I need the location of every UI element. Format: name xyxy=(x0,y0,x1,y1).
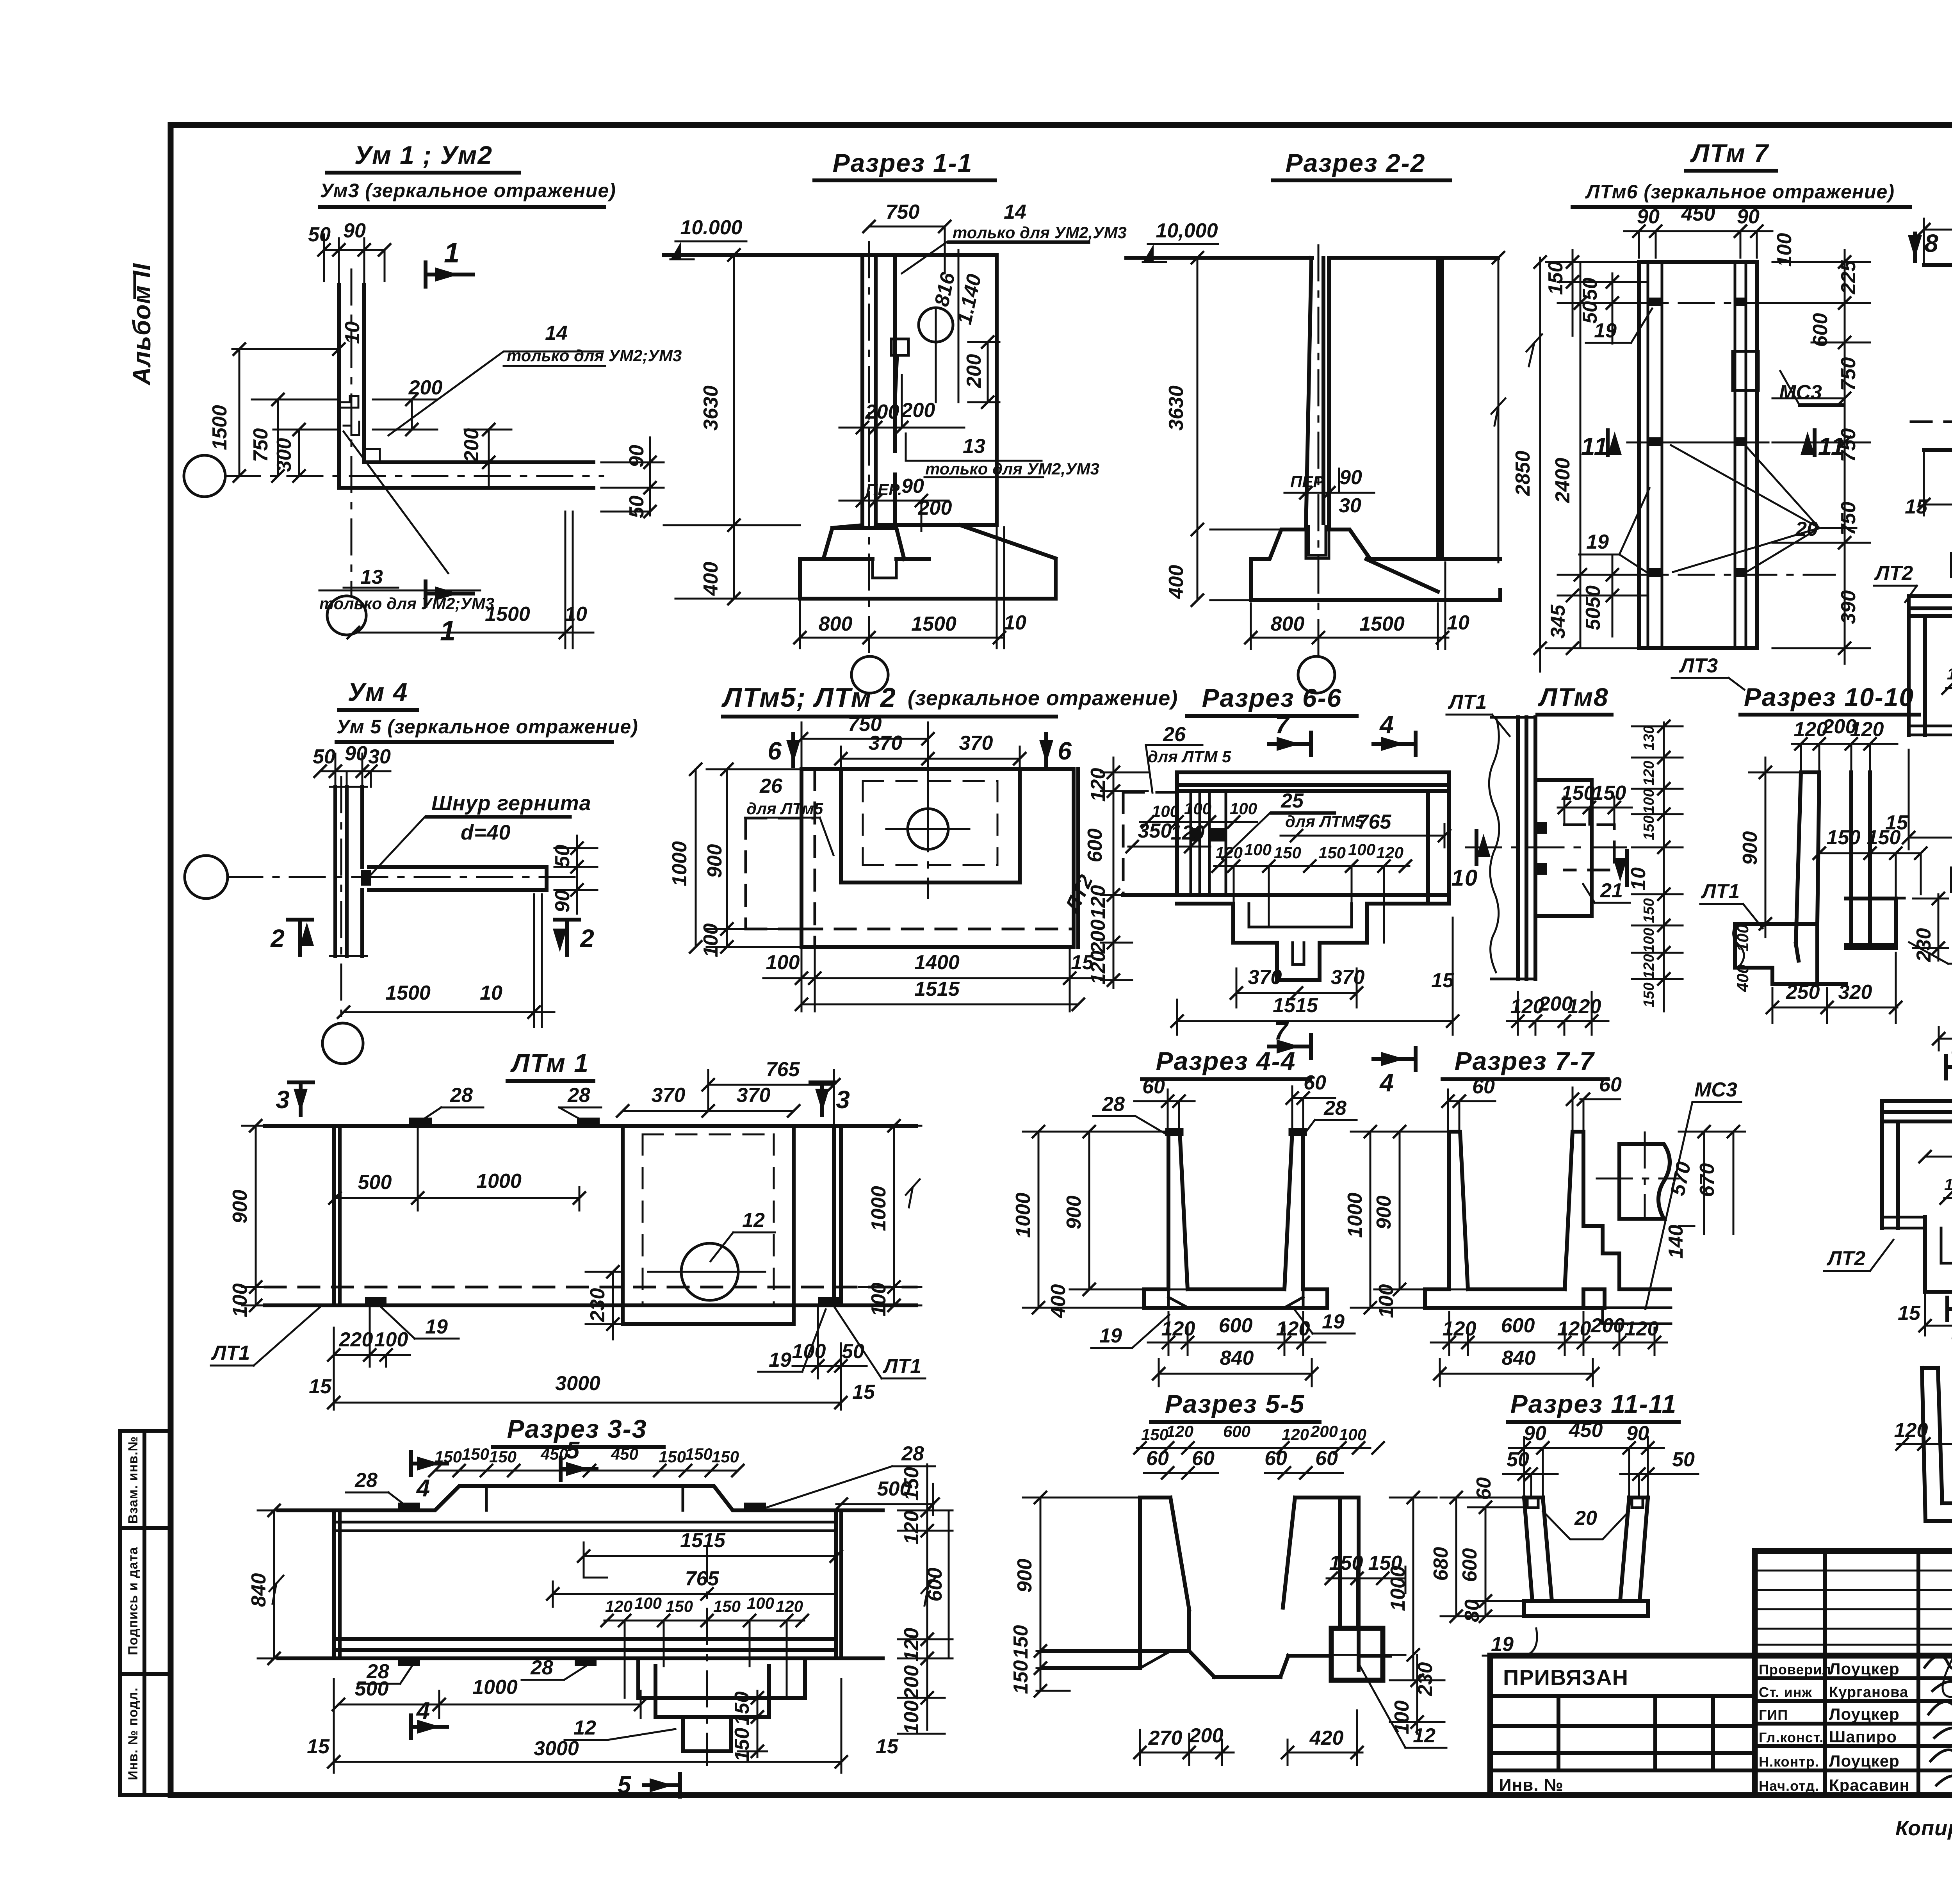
svg-text:750: 750 xyxy=(1837,357,1860,391)
svg-text:1000: 1000 xyxy=(1387,1566,1409,1611)
svg-text:370: 370 xyxy=(652,1084,686,1107)
axis dash-dot vertical xyxy=(351,269,353,595)
svg-text:400: 400 xyxy=(1165,565,1188,599)
svg-text:150: 150 xyxy=(1010,1625,1032,1659)
svg-text:30: 30 xyxy=(368,745,391,768)
trough xyxy=(1524,1498,1648,1601)
svg-text:450: 450 xyxy=(611,1445,638,1463)
slab band xyxy=(1177,772,1449,895)
svg-text:Гл.конст.: Гл.конст. xyxy=(1759,1729,1824,1745)
svg-text:Разрез 5-5: Разрез 5-5 xyxy=(1165,1389,1305,1418)
svg-text:2400: 2400 xyxy=(1551,458,1574,503)
svg-text:120: 120 xyxy=(1276,1317,1310,1340)
svg-text:только для УМ2;УМ3: только для УМ2;УМ3 xyxy=(319,594,494,613)
svg-text:Ум 1 ; Ум2: Ум 1 ; Ум2 xyxy=(354,141,493,169)
svg-text:60: 60 xyxy=(1473,1477,1495,1500)
svg-text:200: 200 xyxy=(408,376,443,399)
svg-text:150: 150 xyxy=(900,1467,923,1501)
svg-text:Ум 5 (зеркальное отражение): Ум 5 (зеркальное отражение) xyxy=(337,716,638,738)
svg-text:600: 600 xyxy=(1501,1314,1535,1337)
svg-text:10: 10 xyxy=(1447,611,1469,634)
svg-text:6: 6 xyxy=(768,737,782,765)
svg-text:14: 14 xyxy=(545,322,568,344)
svg-text:7: 7 xyxy=(1275,711,1290,739)
svg-text:150: 150 xyxy=(1544,261,1567,295)
svg-text:90: 90 xyxy=(345,742,367,765)
svg-text:150: 150 xyxy=(1592,782,1626,804)
section marks 7 4 bottom xyxy=(1269,1017,1311,1058)
svg-text:10: 10 xyxy=(480,982,502,1004)
floor band xyxy=(1882,1217,1952,1228)
top level line xyxy=(1126,256,1498,260)
svg-text:28: 28 xyxy=(354,1469,378,1492)
svg-text:120: 120 xyxy=(900,1628,923,1662)
svg-text:900: 900 xyxy=(1739,831,1761,865)
svg-text:28: 28 xyxy=(1102,1093,1125,1116)
10 marks xyxy=(1452,831,1491,891)
mid section line 11-11 xyxy=(1627,442,1804,444)
6 section marks xyxy=(768,734,800,766)
ties top xyxy=(409,1118,600,1126)
svg-text:Альбом II: Альбом II xyxy=(128,263,156,386)
axis circle bottom xyxy=(327,596,366,635)
МС3 block right xyxy=(1733,351,1758,390)
wall horizontal (plan) xyxy=(339,462,593,488)
svg-text:120: 120 xyxy=(1641,954,1657,979)
svg-text:765: 765 xyxy=(1357,811,1392,833)
svg-text:350: 350 xyxy=(1138,820,1172,842)
svg-text:3000: 3000 xyxy=(555,1372,600,1395)
svg-text:120: 120 xyxy=(1087,885,1110,919)
svg-text:Инв. № подл.: Инв. № подл. xyxy=(126,1687,141,1780)
svg-text:(зеркальное отражение): (зеркальное отражение) xyxy=(908,686,1178,710)
svg-text:ЛТм 1: ЛТм 1 xyxy=(510,1048,589,1077)
left attachment table xyxy=(1490,1696,1952,1770)
svg-text:Разрез 7-7: Разрез 7-7 xyxy=(1455,1046,1595,1075)
svg-text:120: 120 xyxy=(1557,1317,1591,1340)
svg-text:60: 60 xyxy=(1599,1073,1622,1096)
wall studs xyxy=(1191,791,1226,895)
svg-text:19: 19 xyxy=(1491,1633,1514,1656)
svg-text:150: 150 xyxy=(1867,826,1901,849)
svg-text:150: 150 xyxy=(1010,1660,1032,1694)
svg-text:150: 150 xyxy=(731,1692,753,1726)
svg-text:150: 150 xyxy=(1641,898,1657,923)
svg-text:28: 28 xyxy=(567,1084,590,1107)
svg-text:670: 670 xyxy=(1696,1163,1719,1197)
center dash-dot xyxy=(1318,245,1320,662)
bottom slab xyxy=(1144,1289,1327,1308)
bottom slab xyxy=(1425,1289,1605,1308)
svg-text:400: 400 xyxy=(700,562,722,596)
footing xyxy=(1251,529,1500,600)
svg-text:1000: 1000 xyxy=(1012,1193,1035,1238)
svg-text:100: 100 xyxy=(900,1701,923,1735)
svg-text:600: 600 xyxy=(1219,1314,1253,1337)
svg-text:МС3: МС3 xyxy=(1694,1079,1737,1101)
svg-text:100: 100 xyxy=(766,951,800,974)
svg-text:25: 25 xyxy=(1281,790,1304,812)
svg-text:120: 120 xyxy=(1894,1419,1928,1442)
svg-text:220: 220 xyxy=(339,1328,373,1351)
svg-text:120: 120 xyxy=(900,1511,923,1545)
svg-text:1500: 1500 xyxy=(1359,613,1405,635)
svg-text:90: 90 xyxy=(551,890,574,913)
svg-text:120: 120 xyxy=(1215,843,1243,862)
svg-text:только для УМ2;УМ3: только для УМ2;УМ3 xyxy=(507,346,682,365)
svg-text:ЛТ2: ЛТ2 xyxy=(1826,1247,1865,1270)
axis dash-dot horizontal xyxy=(225,475,603,477)
svg-text:90: 90 xyxy=(625,445,648,467)
svg-text:840: 840 xyxy=(1220,1347,1254,1369)
plan outline xyxy=(1924,265,1952,450)
svg-text:60: 60 xyxy=(1142,1075,1165,1098)
left hidden box xyxy=(1123,792,1177,895)
svg-text:150: 150 xyxy=(1318,843,1346,862)
svg-text:для ЛТМ5: для ЛТМ5 xyxy=(1285,812,1364,831)
axis circle left xyxy=(185,856,228,899)
svg-text:230: 230 xyxy=(586,1288,609,1323)
svg-text:28: 28 xyxy=(450,1084,473,1107)
embed circle xyxy=(919,308,953,342)
main stamp outer box xyxy=(1490,1551,1952,1795)
svg-text:200: 200 xyxy=(963,354,985,389)
center axes xyxy=(340,777,342,1023)
svg-text:200: 200 xyxy=(901,399,935,422)
right block xyxy=(1846,899,1896,948)
svg-text:ЛТ1: ЛТ1 xyxy=(1701,880,1740,903)
section marks 4 5 above xyxy=(411,1452,447,1502)
svg-text:120: 120 xyxy=(1625,1317,1659,1340)
svg-text:1515: 1515 xyxy=(914,978,960,1000)
left channel xyxy=(1922,1368,1952,1521)
middle signature table xyxy=(1825,1551,1952,1795)
svg-text:300: 300 xyxy=(273,438,296,472)
svg-text:12: 12 xyxy=(573,1717,596,1739)
svg-text:150: 150 xyxy=(659,1448,686,1466)
svg-text:900: 900 xyxy=(704,844,726,878)
beam bottom xyxy=(278,1639,883,1658)
svg-text:10: 10 xyxy=(341,321,364,344)
svg-text:130: 130 xyxy=(1641,726,1657,750)
right step + МС3 block xyxy=(1583,1226,1670,1289)
svg-text:900: 900 xyxy=(1063,1196,1085,1230)
svg-text:100: 100 xyxy=(1641,928,1657,952)
svg-text:150: 150 xyxy=(489,1448,516,1466)
svg-text:120: 120 xyxy=(1282,1425,1309,1444)
svg-text:ЛТ3: ЛТ3 xyxy=(1679,654,1718,677)
svg-text:765: 765 xyxy=(766,1058,800,1081)
svg-text:2: 2 xyxy=(270,924,285,952)
svg-text:Инв. №: Инв. № xyxy=(1499,1776,1564,1795)
svg-text:420: 420 xyxy=(1309,1727,1344,1749)
svg-text:450: 450 xyxy=(1569,1419,1603,1442)
section 3 marks xyxy=(276,1082,313,1115)
svg-text:50: 50 xyxy=(313,745,335,768)
svg-text:14: 14 xyxy=(1004,201,1026,223)
svg-text:ЛТм6 (зеркальное отражение): ЛТм6 (зеркальное отражение) xyxy=(1585,181,1895,203)
corner notch detail xyxy=(339,396,380,462)
long dashed center line xyxy=(1911,421,1952,423)
svg-text:12: 12 xyxy=(742,1209,765,1232)
svg-text:50: 50 xyxy=(625,496,648,518)
ties xyxy=(398,1503,766,1666)
wall slot bottom xyxy=(1306,526,1329,558)
section mark 1 bottom xyxy=(426,581,473,647)
svg-text:320: 320 xyxy=(1838,981,1872,1004)
svg-text:140: 140 xyxy=(1665,1225,1687,1259)
svg-text:150: 150 xyxy=(1561,782,1595,804)
boot bottom xyxy=(1735,899,1870,984)
svg-text:390: 390 xyxy=(1837,590,1860,624)
wall center dash-dot xyxy=(868,242,870,660)
svg-text:Ст. инж: Ст. инж xyxy=(1759,1684,1812,1700)
svg-text:120: 120 xyxy=(1850,718,1884,741)
svg-text:Копировал Еремченко: Копировал Еремченко xyxy=(1895,1817,1952,1840)
inner edge lines xyxy=(1648,262,1746,648)
svg-text:19: 19 xyxy=(1586,531,1609,553)
svg-text:1400: 1400 xyxy=(914,951,960,974)
wall vertical xyxy=(335,787,362,956)
svg-text:150: 150 xyxy=(1274,843,1301,862)
svg-text:120: 120 xyxy=(1161,1317,1195,1340)
plan outline xyxy=(265,1126,916,1305)
panel outline xyxy=(1639,262,1757,648)
svg-text:120: 120 xyxy=(1641,761,1657,785)
svg-text:150: 150 xyxy=(462,1445,489,1463)
svg-text:100: 100 xyxy=(1184,799,1211,818)
svg-text:только для УМ2,УМ3: только для УМ2,УМ3 xyxy=(953,223,1127,242)
side block xyxy=(1537,780,1592,916)
svg-text:50: 50 xyxy=(1672,1448,1695,1471)
svg-text:90: 90 xyxy=(1339,466,1362,489)
svg-text:30: 30 xyxy=(1339,494,1361,517)
svg-text:2850: 2850 xyxy=(1512,451,1534,496)
svg-text:4: 4 xyxy=(416,1475,431,1502)
svg-text:90: 90 xyxy=(1637,205,1660,228)
svg-text:1000: 1000 xyxy=(1344,1193,1366,1238)
svg-text:50: 50 xyxy=(1582,608,1605,630)
svg-text:6: 6 xyxy=(1058,737,1072,765)
channel xyxy=(1449,1132,1583,1289)
svg-text:900: 900 xyxy=(1373,1196,1395,1230)
signatures squiggles xyxy=(1925,1656,1952,1787)
svg-text:15: 15 xyxy=(876,1735,899,1758)
svg-text:ЛТм8: ЛТм8 xyxy=(1538,683,1609,711)
center line xyxy=(1466,847,1638,849)
svg-text:600: 600 xyxy=(1459,1548,1481,1582)
4 / 5 marks bottom xyxy=(411,1697,447,1738)
svg-text:10: 10 xyxy=(1452,865,1478,891)
svg-text:2: 2 xyxy=(580,924,595,952)
svg-text:816: 816 xyxy=(930,270,960,308)
svg-text:Красавин: Красавин xyxy=(1829,1776,1910,1794)
svg-text:750: 750 xyxy=(886,201,920,223)
svg-text:150: 150 xyxy=(1641,815,1657,840)
axis xyxy=(706,1546,708,1765)
svg-text:10.000: 10.000 xyxy=(680,216,742,239)
svg-text:60: 60 xyxy=(1315,1447,1338,1470)
svg-text:Взам. инв.№: Взам. инв.№ xyxy=(126,1436,141,1524)
svg-text:5: 5 xyxy=(618,1772,632,1799)
tie squares on top xyxy=(1527,1498,1643,1508)
svg-text:Проверил: Проверил xyxy=(1759,1662,1832,1678)
svg-text:90: 90 xyxy=(1626,1422,1649,1445)
svg-text:600: 600 xyxy=(1084,829,1106,863)
svg-text:20: 20 xyxy=(1574,1507,1597,1530)
wall vertical (plan) xyxy=(339,285,364,488)
svg-text:3630: 3630 xyxy=(700,385,722,431)
svg-text:120: 120 xyxy=(776,1597,803,1615)
svg-text:Разрез 2-2: Разрез 2-2 xyxy=(1286,148,1426,177)
svg-text:100: 100 xyxy=(634,1594,662,1612)
svg-text:ПЕР.: ПЕР. xyxy=(866,480,902,499)
attached box dashed xyxy=(746,818,815,929)
svg-text:ЛТм5; ЛТм 2: ЛТм5; ЛТм 2 xyxy=(721,682,896,713)
wall (tapered) xyxy=(1306,258,1329,529)
axis circle xyxy=(1298,656,1335,693)
svg-text:120: 120 xyxy=(1567,995,1601,1018)
tie squares xyxy=(1648,298,1746,577)
svg-text:10: 10 xyxy=(565,603,587,626)
svg-text:60: 60 xyxy=(1265,1447,1287,1470)
svg-text:Подпись и дата: Подпись и дата xyxy=(126,1547,141,1655)
svg-text:370: 370 xyxy=(737,1084,771,1107)
svg-text:4: 4 xyxy=(1379,1069,1395,1097)
svg-text:120: 120 xyxy=(1947,665,1952,683)
svg-text:370: 370 xyxy=(1331,966,1365,989)
svg-text:90: 90 xyxy=(901,475,924,497)
axis circle bottom xyxy=(322,1023,363,1064)
svg-text:только для УМ2,УМ3: только для УМ2,УМ3 xyxy=(925,460,1099,478)
axis circle left xyxy=(184,455,225,497)
svg-text:100: 100 xyxy=(747,1594,774,1612)
title block xyxy=(1490,1551,1952,1840)
beam top with plateau xyxy=(278,1486,883,1510)
svg-text:150: 150 xyxy=(666,1597,693,1615)
bottom band and rib xyxy=(1123,895,1449,904)
svg-text:3: 3 xyxy=(836,1086,851,1114)
svg-text:100: 100 xyxy=(1641,789,1657,813)
bay xyxy=(623,1126,794,1324)
svg-text:15: 15 xyxy=(1898,1302,1921,1325)
slab band xyxy=(1882,1101,1952,1121)
svg-text:90: 90 xyxy=(343,219,366,242)
svg-text:50: 50 xyxy=(1507,1448,1529,1471)
wall horizontal xyxy=(369,867,547,890)
svg-text:12: 12 xyxy=(1413,1724,1436,1747)
svg-text:100: 100 xyxy=(1733,924,1752,952)
section 2 marks xyxy=(270,920,314,955)
svg-text:ЛТ1: ЛТ1 xyxy=(882,1355,921,1378)
svg-text:150: 150 xyxy=(1141,1425,1168,1444)
svg-text:680: 680 xyxy=(1430,1547,1452,1581)
floor band xyxy=(1909,726,1952,735)
svg-text:3630: 3630 xyxy=(1165,385,1188,431)
svg-text:100: 100 xyxy=(792,1340,826,1363)
right panel edge xyxy=(995,255,999,525)
right edge xyxy=(1428,772,1449,904)
svg-text:4: 4 xyxy=(416,1697,431,1724)
svg-text:1515: 1515 xyxy=(680,1529,726,1552)
svg-text:50: 50 xyxy=(1582,585,1605,608)
svg-text:100: 100 xyxy=(1348,840,1375,859)
wall tapered xyxy=(1796,772,1870,944)
svg-text:60: 60 xyxy=(1146,1447,1169,1470)
svg-text:15: 15 xyxy=(309,1375,332,1398)
svg-text:4: 4 xyxy=(1379,711,1395,739)
svg-text:150: 150 xyxy=(435,1448,462,1466)
svg-text:19: 19 xyxy=(769,1349,791,1371)
axis xyxy=(927,754,929,898)
svg-text:21: 21 xyxy=(1600,879,1623,902)
svg-text:15: 15 xyxy=(852,1381,875,1403)
svg-text:15: 15 xyxy=(307,1735,330,1758)
svg-text:1000: 1000 xyxy=(867,1186,890,1231)
svg-text:500: 500 xyxy=(358,1171,392,1194)
svg-text:100: 100 xyxy=(1152,802,1179,820)
svg-text:370: 370 xyxy=(869,732,903,754)
svg-text:15: 15 xyxy=(1431,969,1454,992)
svg-text:200: 200 xyxy=(865,401,899,423)
svg-text:500: 500 xyxy=(355,1678,389,1700)
svg-text:10: 10 xyxy=(1627,866,1650,891)
svg-text:10: 10 xyxy=(1004,611,1026,634)
wall verticals xyxy=(862,255,895,525)
section mark 1 top xyxy=(426,237,473,287)
svg-text:Ум 4: Ум 4 xyxy=(348,677,408,706)
svg-text:1: 1 xyxy=(440,615,456,647)
svg-text:345: 345 xyxy=(1547,604,1569,639)
svg-text:900: 900 xyxy=(1013,1559,1036,1593)
svg-text:28: 28 xyxy=(1323,1097,1346,1120)
svg-text:1500: 1500 xyxy=(911,613,956,635)
svg-text:200: 200 xyxy=(900,1665,923,1700)
wall strip with break edges xyxy=(1518,717,1535,979)
svg-text:100: 100 xyxy=(1339,1425,1366,1444)
svg-text:1515: 1515 xyxy=(1273,994,1318,1017)
svg-text:90: 90 xyxy=(1737,205,1760,228)
svg-text:800: 800 xyxy=(1271,613,1305,635)
svg-text:26: 26 xyxy=(1163,723,1186,746)
svg-text:200: 200 xyxy=(1310,1422,1338,1440)
svg-text:60: 60 xyxy=(1472,1075,1495,1098)
8 mark top right xyxy=(1908,229,1939,261)
svg-text:200: 200 xyxy=(460,428,483,463)
svg-text:ПЕР.: ПЕР. xyxy=(1290,472,1327,491)
svg-text:1000: 1000 xyxy=(472,1676,518,1699)
svg-text:13: 13 xyxy=(963,435,985,458)
walls xyxy=(1140,1498,1359,1670)
svg-text:50: 50 xyxy=(1579,301,1601,324)
svg-text:900: 900 xyxy=(229,1190,251,1224)
footing slot xyxy=(873,559,896,578)
svg-text:200: 200 xyxy=(1189,1724,1224,1747)
footing outline xyxy=(800,525,1056,599)
svg-text:400: 400 xyxy=(1047,1284,1070,1319)
svg-text:1: 1 xyxy=(444,237,460,269)
svg-text:150: 150 xyxy=(685,1445,712,1463)
svg-text:1000: 1000 xyxy=(668,841,691,886)
svg-text:800: 800 xyxy=(819,613,853,635)
12 block xyxy=(1331,1628,1383,1680)
svg-text:3000: 3000 xyxy=(534,1737,579,1760)
svg-text:Лоуцкер: Лоуцкер xyxy=(1829,1660,1900,1678)
bay xyxy=(841,769,1020,882)
svg-text:250: 250 xyxy=(1786,981,1820,1004)
svg-text:ЛТ1: ЛТ1 xyxy=(211,1342,250,1364)
svg-text:50: 50 xyxy=(842,1340,864,1363)
